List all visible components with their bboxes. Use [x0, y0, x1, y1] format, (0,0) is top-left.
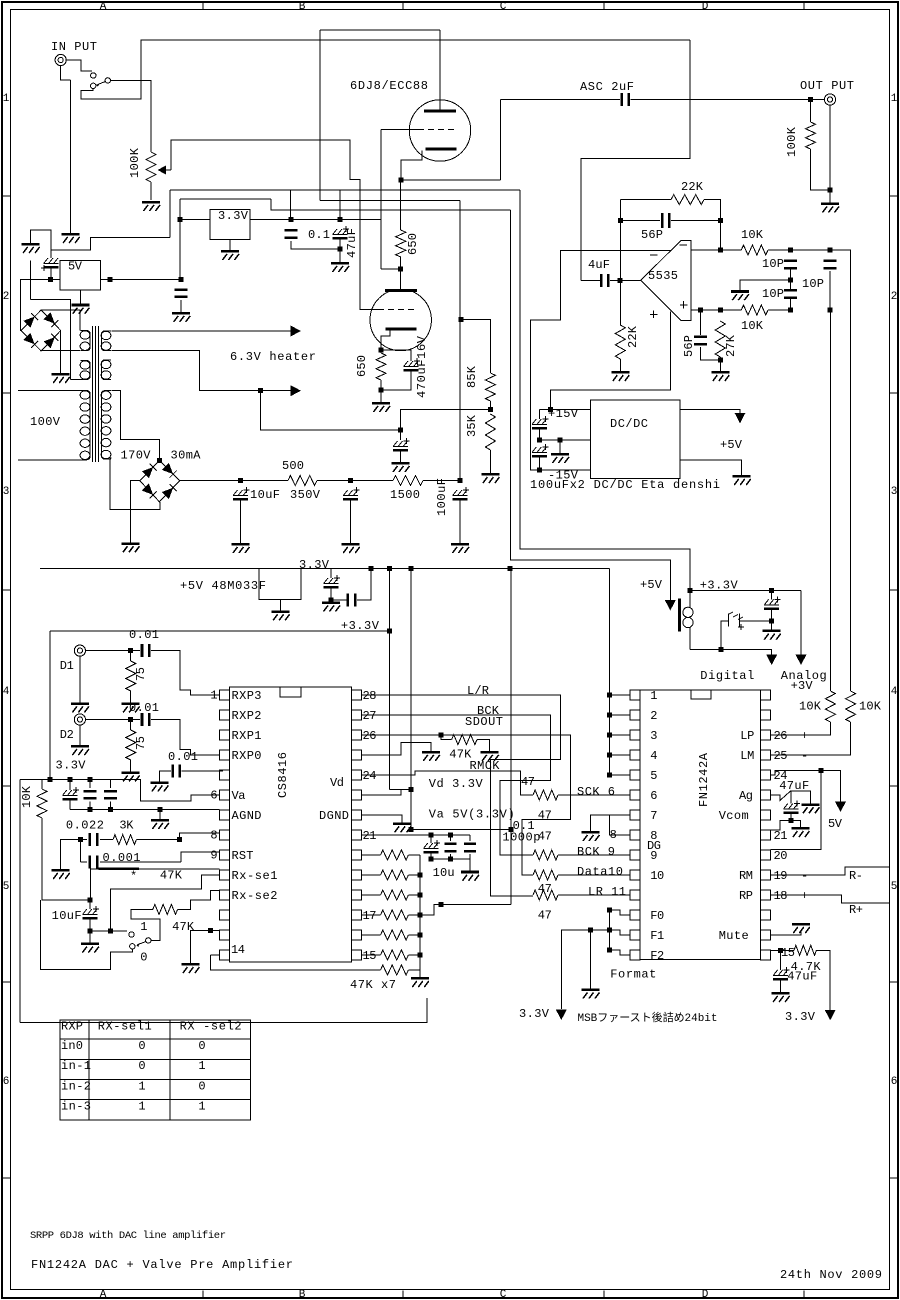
wire 3K east [136, 839, 179, 841]
svg-text:OUT PUT: OUT PUT [800, 79, 854, 93]
resistor R16 10K [37, 789, 47, 818]
svg-text:47: 47 [538, 882, 552, 896]
wire C25 bottom [89, 802, 91, 810]
opamp V+ pin wire [551, 312, 671, 410]
wire pin15 node [778, 948, 783, 953]
svg-text:B: B [299, 1289, 306, 1300]
svg-text:Data10: Data10 [577, 865, 623, 879]
wire jack to switch throw1 [66, 60, 92, 71]
junction pin24 node [818, 768, 823, 773]
junction mid gnd [558, 438, 563, 443]
FN1242A pin 7 box [630, 810, 640, 820]
wire rail left drop [169, 190, 171, 238]
wire inductor to digital [690, 650, 772, 656]
FN1242A pin 11 box [630, 890, 640, 900]
svg-text:3.3V: 3.3V [299, 558, 330, 572]
wire array row 915 to 3.3V bus [408, 905, 510, 916]
junction AGND line 1 [87, 807, 92, 812]
svg-text:3K: 3K [119, 819, 134, 833]
wire to R 650 lower [380, 350, 382, 353]
wire R16 top [42, 780, 50, 789]
FN1242A pin 21 box [761, 830, 771, 840]
wire 56P right [671, 220, 720, 222]
svg-text:6.3V heater: 6.3V heater [230, 350, 316, 364]
capacitor C34 47uF pin15 [773, 967, 790, 981]
wire BCK to pin9 [558, 854, 630, 856]
ground R15 [122, 771, 140, 781]
svg-text:L/R: L/R [467, 684, 489, 698]
ground C6 [172, 312, 190, 322]
wire 10K right to pin25 [771, 722, 851, 755]
svg-text:5V: 5V [68, 260, 83, 274]
wire rail B down to Vd [410, 569, 412, 830]
svg-text:4: 4 [3, 686, 10, 698]
svg-text:0: 0 [138, 1059, 145, 1073]
resistor R10 22K to ground [615, 325, 625, 359]
CS8416 pin 10 box [220, 870, 230, 880]
svg-text:22K: 22K [681, 180, 704, 194]
wire F1 to 3.3V arrow [561, 930, 609, 1009]
svg-text:AGND: AGND [232, 809, 262, 823]
svg-text:-: - [801, 749, 808, 763]
junction +3.3V node [688, 588, 693, 593]
CS8416 pin 13 box [220, 930, 230, 940]
capacitor C10 bias elco [393, 438, 410, 452]
regulator U5 48M033F box [259, 569, 301, 600]
wire B+ rail to filter [459, 200, 461, 480]
resistor 47K array row 970 [381, 965, 409, 975]
svg-text:Analog: Analog [781, 669, 827, 683]
svg-text:-: - [801, 869, 808, 883]
resistor R18 47K select [153, 904, 178, 914]
diode BR1 D3 [23, 313, 38, 328]
wire Va caps bottom [431, 858, 470, 860]
ground C19 [322, 602, 340, 612]
wire R- rail down [830, 250, 851, 691]
junction output ground node [828, 187, 833, 192]
wire C9 to ground [459, 500, 461, 543]
svg-text:RXP: RXP [61, 1020, 83, 1034]
wire BCK net [361, 715, 550, 855]
svg-text:F1: F1 [650, 929, 664, 943]
wire R16 bottom [42, 818, 90, 900]
wire 0.01-3 east [182, 770, 220, 772]
ground 27K [711, 371, 729, 381]
wire F strap to Format ground [590, 930, 592, 989]
CS8416 top notch [280, 687, 301, 697]
junction Va 1 [428, 833, 433, 838]
resistor R4 100K output [806, 122, 816, 149]
wire to output jack [811, 99, 825, 101]
wire to C 470uF [381, 350, 411, 361]
svg-text:DG: DG [647, 839, 661, 853]
svg-text:1: 1 [138, 1099, 145, 1113]
wire to R 75 D2 [130, 720, 132, 731]
wire to R 22K gnd [619, 280, 621, 325]
svg-text:75: 75 [134, 736, 148, 750]
ground R14 [122, 702, 140, 712]
junction D1 node [128, 648, 133, 653]
junction SDOUT 47K [438, 733, 443, 738]
wire DCDC +5V out [680, 409, 740, 414]
svg-text:0.01: 0.01 [129, 701, 159, 715]
junction +15V [548, 407, 553, 412]
wire to bridge1 left [20, 279, 50, 330]
wire rail A jog to rail B [390, 788, 412, 790]
capacitor C14 10P lower [784, 289, 797, 299]
junction 3.3V reg input [178, 217, 183, 222]
junction FN bus pin3 [607, 733, 612, 738]
svg-text:2: 2 [3, 291, 10, 303]
ground 3.3V reg [221, 250, 239, 260]
svg-text:10uF: 10uF [52, 909, 82, 923]
junction array bus 935 [417, 933, 422, 938]
ground 0.022 [52, 869, 70, 879]
ground 48M033F [272, 610, 290, 620]
junction FN bus pin1 [607, 693, 612, 698]
junction C35 bottom [769, 619, 774, 624]
wire D1 sleeve [79, 656, 81, 702]
capacitor C11 4uF [600, 274, 610, 287]
svg-text:in0: in0 [61, 1039, 83, 1053]
svg-text:18: 18 [774, 889, 788, 903]
wire to R 650 upper [400, 180, 402, 230]
svg-text:D: D [702, 1289, 709, 1300]
svg-text:100K: 100K [128, 147, 142, 178]
wire CS pin23 Vd [361, 789, 411, 795]
resistor R14 75 D1 [126, 661, 136, 691]
wire filter cap top [31, 230, 51, 258]
resistor R21 47 BCK [533, 850, 558, 860]
wire to ASC cap [501, 99, 621, 101]
wire B+ top [320, 29, 440, 31]
ground C3 C4 [331, 262, 349, 272]
wire switch common to 47K [131, 909, 160, 940]
wire R+ rail down [829, 310, 831, 691]
wire Ag diagonal to cap node [771, 791, 811, 804]
diode BR1 D1 [44, 312, 59, 327]
svg-text:3.3V: 3.3V [218, 209, 249, 223]
wire ground return bottom [20, 998, 427, 1023]
junction 5V reg input [48, 277, 53, 282]
wire Analog arrow [800, 591, 802, 656]
wire 5V to 3.3V input [179, 219, 181, 279]
svg-text:C: C [500, 1289, 507, 1300]
svg-text:6: 6 [891, 1076, 898, 1088]
wire C5 bottom [50, 268, 52, 279]
svg-text:1500: 1500 [390, 488, 420, 502]
wire array bus [419, 855, 421, 977]
wire to C20 [331, 599, 347, 601]
svg-text:10P: 10P [762, 257, 784, 271]
svg-text:0: 0 [138, 1039, 145, 1053]
FN1242A pin 14 box [630, 950, 640, 960]
ground bridge2 [121, 542, 139, 552]
wire 3.3V analog stub [103, 779, 110, 781]
wire R15 bottom [130, 760, 132, 771]
svg-text:Vcom: Vcom [719, 809, 749, 823]
wire rail to FN feed [510, 568, 610, 570]
wire pin13 ground cluster [208, 928, 213, 933]
capacitor C2 470uF16V [404, 358, 421, 372]
svg-text:27: 27 [363, 709, 377, 723]
junction 3K out [177, 837, 182, 842]
resistor R20 47 SCK [533, 790, 558, 800]
wire D2 to RXP0 [151, 720, 220, 756]
svg-text:RXP3: RXP3 [232, 689, 262, 703]
svg-text:5: 5 [891, 881, 898, 893]
svg-text:4: 4 [650, 749, 657, 763]
capacitor C13 10P upper [784, 260, 797, 270]
wire reg out east [370, 218, 381, 220]
junction bead [719, 647, 724, 652]
junction cap mid [87, 777, 92, 782]
FN1242A pin 16 box [761, 930, 771, 940]
FN1242A pin 23 box [761, 790, 771, 800]
opamp V- pin wire [531, 251, 672, 471]
svg-text:5: 5 [3, 881, 10, 893]
wire to ground [339, 249, 341, 262]
switch SW2 Rx select [129, 932, 134, 937]
wire 10K left to pin26 [771, 722, 831, 735]
resistor R24 10K DAC left [825, 691, 835, 722]
wire 5V reg gnd pin [79, 290, 81, 304]
wire 22K top left [620, 199, 671, 201]
CS8416 pin 6 box [220, 790, 230, 800]
FN1242A pin 5 box [630, 770, 640, 780]
diode BR2 D2 [162, 484, 177, 499]
wire to pin8 [180, 833, 220, 840]
wire 5V rail to DAC [510, 210, 670, 601]
capacitor C5 input elco [41, 258, 59, 271]
ground output [821, 203, 839, 213]
svg-text:5V: 5V [828, 817, 843, 831]
resistor R19 47K SDOUT pulldown [441, 735, 452, 740]
svg-text:F2: F2 [650, 949, 664, 963]
ground C10 [392, 462, 410, 472]
svg-text:IN PUT: IN PUT [51, 40, 97, 54]
wire 3.3V rail to DAC analog [520, 190, 690, 591]
capacitor C3 0.1 [285, 229, 298, 239]
wire pin24 node to pin20 [771, 770, 821, 849]
potentiometer VR1 100K [146, 152, 156, 182]
FN1242A pin 25 box [761, 750, 771, 760]
wire gnd trace down [30, 261, 32, 300]
wire V1a grid lead [381, 128, 418, 130]
svg-text:RX-sel1: RX-sel1 [98, 1020, 152, 1034]
svg-text:RM: RM [739, 869, 753, 883]
svg-text:350V: 350V [290, 488, 321, 502]
junction array bus 875 [417, 873, 422, 878]
wire 3.3V distribution rail y190 [170, 189, 520, 191]
capacitor C23 0.01 RXP [171, 765, 181, 778]
capacitor C31 0.1 Va [449, 835, 451, 841]
svg-text:30mA: 30mA [171, 449, 202, 463]
diode BR2 D3 [142, 464, 157, 479]
svg-text:Mute: Mute [719, 929, 749, 943]
svg-text:B: B [299, 1, 306, 13]
wire 100V top [18, 390, 80, 392]
FN1242A pin 3 box [630, 730, 640, 740]
wire C2 bottom [381, 371, 411, 390]
svg-text:RXP2: RXP2 [232, 709, 262, 723]
svg-text:19: 19 [774, 869, 788, 883]
ground C23 [150, 781, 168, 791]
IC U6 CS8416 body [230, 687, 352, 962]
wire to filter [768, 249, 790, 251]
svg-text:0: 0 [198, 1079, 205, 1093]
capacitor C4 47uF [333, 226, 350, 240]
junction DC mid [537, 438, 542, 443]
wire to ground [89, 931, 91, 943]
wire 4.7K to 3.3V arrow [816, 950, 830, 1011]
junction 47uF 3.3V [769, 588, 774, 593]
ground C7 [232, 543, 250, 553]
resistor R17 3K [113, 835, 136, 845]
CS8416 pin 20 box [351, 850, 361, 860]
svg-text:100uF: 100uF [435, 478, 449, 516]
wire R14 bottom [130, 691, 132, 702]
arrow 3.3V right [825, 1010, 836, 1021]
svg-text:25: 25 [774, 749, 788, 763]
wire V1a plate lead [439, 30, 441, 110]
svg-text:22K: 22K [626, 325, 640, 348]
svg-text:26: 26 [774, 729, 788, 743]
resistor R13 27K [715, 321, 725, 357]
FN1242A pin 4 box [630, 750, 640, 760]
pot wiper arrow [160, 169, 171, 171]
capacitor C27 0.022 [89, 833, 99, 846]
wire R7 bottom [489, 401, 491, 410]
ground Format [582, 989, 600, 999]
ground AGND [151, 819, 169, 829]
wire mid to ground [559, 440, 561, 453]
CS8416 pin 18 box [351, 890, 361, 900]
FN1242A pin 8 box [630, 830, 640, 840]
wire 170V top to bridge2 [112, 391, 160, 461]
FN1242A pin 18 box [761, 890, 771, 900]
svg-text:10: 10 [650, 869, 664, 883]
junction FN bus pin4 [607, 753, 612, 758]
wire switch throw2 to top rail [81, 40, 690, 99]
wire FN pin5 [610, 774, 630, 776]
diode BR2 D1 [162, 463, 177, 478]
wire bridge1 bottom AC [41, 350, 80, 352]
ground Ag [801, 803, 819, 813]
junction C20 rail [369, 566, 374, 571]
ground cathode network [372, 402, 390, 412]
wire +3.3V line DAC [690, 590, 801, 592]
tube V1b 6DJ8 lower triode envelope [370, 289, 431, 350]
wire winding B bottom [70, 379, 80, 381]
svg-text:Vd: Vd [330, 776, 344, 790]
FN1242A pin 15 box [761, 950, 771, 960]
svg-text:4: 4 [891, 686, 898, 698]
svg-text:3.3V: 3.3V [56, 759, 87, 773]
wire Vcom pin [771, 820, 791, 830]
junction switch line [108, 928, 113, 933]
wire FN pin2 [610, 714, 630, 716]
svg-text:+5V 48M033F: +5V 48M033F [180, 579, 266, 593]
wire LR to pin11 [558, 894, 630, 896]
capacitor C8 filter mid [343, 487, 360, 501]
svg-text:5: 5 [650, 769, 657, 783]
svg-text:LM: LM [740, 749, 754, 763]
wire 3.3V main rail [40, 568, 510, 570]
junction array bus 915 [417, 913, 422, 918]
resistor R22 47 Data [533, 870, 558, 880]
wire 100V bottom [18, 459, 80, 461]
svg-text:47uF: 47uF [787, 969, 817, 983]
resistor 47K array row 915 [361, 914, 380, 916]
svg-text:9: 9 [210, 849, 217, 863]
svg-text:Vd 3.3V: Vd 3.3V [429, 777, 484, 791]
svg-text:14: 14 [231, 943, 245, 957]
FN1242A pin 10 box [630, 870, 640, 880]
svg-text:0: 0 [140, 951, 147, 965]
resistor R8 35K [485, 414, 495, 450]
wire 22K right [704, 200, 720, 250]
svg-text:5535: 5535 [648, 269, 678, 283]
capacitor C7 10uF 350V [233, 487, 250, 501]
svg-text:650: 650 [406, 233, 420, 255]
capacitor C29 10uF [89, 900, 91, 909]
capacitor C22 0.01 D2 [141, 713, 151, 726]
svg-text:470uF16V: 470uF16V [415, 335, 429, 398]
svg-text:8: 8 [210, 829, 217, 843]
wire heater line 1 [112, 330, 296, 332]
capacitor C25 0.1 analog [89, 780, 91, 788]
wire bridge1 top AC [41, 310, 80, 331]
resistor R12 10K lower [741, 305, 768, 315]
converter U4 DC/DC box [591, 400, 680, 478]
resistor R15 75 D2 [126, 730, 136, 760]
wire ASC to output [631, 99, 811, 101]
T1 winding C 100V primary [80, 391, 90, 460]
wire to ground Va [469, 859, 471, 871]
wire bar to Rx-se1 pin [139, 868, 220, 870]
wire FN pin4 [610, 754, 630, 756]
svg-text:10K: 10K [741, 228, 764, 242]
capacitor C12 56P [661, 213, 671, 228]
svg-text:47K: 47K [172, 920, 195, 934]
wire V1b cathode lead [381, 331, 390, 351]
svg-text:FN1242A DAC + Valve Pre Amplif: FN1242A DAC + Valve Pre Amplifier [31, 1258, 293, 1272]
junction 100uF node [458, 478, 463, 483]
capacitor C28 0.001 [89, 855, 99, 868]
capacitor C26 analog [109, 783, 111, 788]
arrow 5V DAC [835, 802, 846, 813]
FN1242A pin 2 box [630, 710, 640, 720]
junction rail tap A [387, 566, 392, 571]
svg-text:SCK 6: SCK 6 [577, 785, 615, 799]
svg-text:47: 47 [538, 909, 552, 923]
wire pin5 stub [220, 770, 224, 772]
wire C16 bottom [700, 347, 720, 360]
op-amp U1 5535 [641, 240, 691, 320]
capacitor C30 Va elco [430, 835, 432, 843]
capacitor C18 100uF -15V [532, 444, 549, 458]
junction bridge2 top [157, 458, 162, 463]
FN pin7 pin8 ground [591, 815, 630, 831]
svg-text:47K x7: 47K x7 [350, 978, 396, 992]
svg-text:C: C [500, 1, 507, 13]
wire to 0.001 [79, 840, 81, 862]
FN1242A pin 22 box [761, 810, 771, 820]
wire heater tap to bias node [260, 391, 400, 431]
arrow 3.3V F [556, 1010, 567, 1021]
ground Va caps [461, 871, 479, 881]
